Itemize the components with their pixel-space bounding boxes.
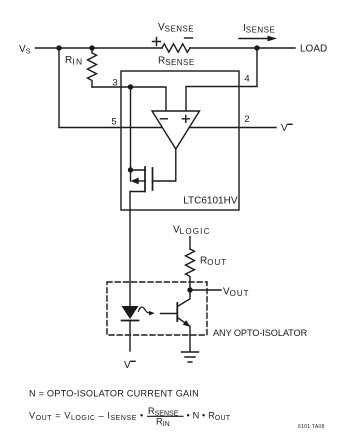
node junction dot E (MOSFET source node) (128, 167, 133, 172)
wire RIN to op-amp inverting input (pin 3) (92, 87, 166, 111)
svg-text:V: V (281, 123, 288, 134)
svg-text:V: V (124, 360, 131, 371)
svg-text:3: 3 (112, 78, 117, 89)
svg-text:4: 4 (244, 74, 249, 85)
wire LED cathode to V- (129, 321, 131, 352)
svg-text:ANY OPTO-ISOLATOR: ANY OPTO-ISOLATOR (213, 328, 308, 338)
ground symbol (182, 352, 199, 362)
label RSENSE (under resistor) (158, 56, 195, 68)
formula fraction bar (148, 415, 184, 417)
pin 4 label (244, 74, 249, 85)
svg-text:5: 5 (111, 117, 116, 128)
node junction dot D (pin 3 node) (128, 84, 133, 89)
wire pin 4 to op-amp non-inverting input (186, 48, 257, 111)
svg-text:VSENSE: VSENSE (158, 22, 194, 34)
svg-text:N = OPTO-ISOLATOR CURRENT GAIN: N = OPTO-ISOLATOR CURRENT GAIN (29, 389, 199, 399)
note N = opto-isolator current gain (29, 389, 199, 399)
wire VLOGIC down to ROUT (189, 237, 191, 250)
svg-text:VLOGIC: VLOGIC (173, 225, 211, 237)
wire op-amp output to MOSFET gate (153, 149, 176, 181)
wire top rail left (VS to RSENSE) (36, 47, 163, 49)
wire pin 2 to V- (190, 127, 277, 129)
opto-isolator dashed box (107, 282, 207, 335)
label ANY OPTO-ISOLATOR (213, 328, 308, 338)
svg-text:ROUT: ROUT (200, 256, 227, 268)
transistor Q2 base bar (176, 303, 178, 321)
label LTC6101HV (183, 196, 238, 207)
svg-text:VOUT = VLOGIC – ISENSE •: VOUT = VLOGIC – ISENSE • (29, 411, 144, 422)
transistor Q2 collector (177, 290, 190, 307)
light coupling squiggle arrow (138, 307, 150, 313)
svg-text:RSENSE: RSENSE (158, 56, 195, 68)
label ROUT (200, 256, 227, 268)
wire VOUT (190, 289, 221, 291)
pin 3 label (112, 78, 117, 89)
svg-text:6101 TA08: 6101 TA08 (298, 424, 325, 430)
pin 5 label (111, 117, 116, 128)
svg-text:VOUT: VOUT (223, 287, 250, 299)
svg-text:LOAD: LOAD (300, 44, 327, 55)
wire VS to pin 5 (V+ supply) (59, 48, 162, 128)
svg-text:LTC6101HV: LTC6101HV (183, 196, 238, 207)
MOSFET drain stub and wire down to LED (130, 192, 144, 307)
minus sign (VSENSE polarity) (185, 37, 193, 39)
svg-text:VS: VS (19, 44, 31, 56)
node junction dot B (RIN branch) (89, 45, 94, 50)
MOSFET source stub (131, 169, 146, 171)
label LOAD (300, 44, 327, 55)
label VSENSE (158, 22, 194, 34)
transistor Q1 P-MOSFET channel bar (144, 167, 146, 192)
op-amp minus input sign (160, 118, 167, 120)
op-amp plus input sign (182, 115, 189, 122)
MOSFET body arrow stub (137, 180, 145, 182)
figure code (298, 424, 325, 430)
transistor Q1 P-MOSFET gate bar (152, 168, 154, 190)
formula fraction RIN denominator (156, 417, 170, 428)
op-amp U1 triangle (152, 111, 200, 149)
transistor Q2 NPN base lead (161, 313, 177, 315)
label ISENSE (243, 23, 275, 35)
svg-text:RIN: RIN (65, 55, 84, 67)
node junction dot A (VS / pin5 branch) (56, 45, 61, 50)
node junction dot C (LOAD / pin4 branch) (254, 45, 259, 50)
label VLOGIC (173, 225, 211, 237)
formula VOUT equation left part (29, 411, 144, 422)
plus sign (VSENSE polarity) (153, 38, 161, 46)
svg-text:2: 2 (244, 114, 249, 125)
svg-text:ISENSE: ISENSE (243, 23, 275, 35)
diode D1 LED of opto-isolator (122, 306, 139, 319)
svg-text:• N • ROUT: • N • ROUT (187, 411, 231, 422)
formula right part N x ROUT (187, 411, 231, 422)
wire pin3 node down to MOSFET source/body (130, 87, 132, 181)
label RIN (65, 55, 84, 67)
label VOUT (223, 287, 250, 299)
transistor Q2 emitter with arrow (177, 318, 190, 352)
arrow ISENSE (current direction) (239, 38, 269, 40)
resistor ROUT (186, 249, 195, 290)
svg-text:RIN: RIN (156, 417, 170, 428)
formula fraction RSENSE numerator (148, 406, 179, 417)
IC box LTC6101HV (121, 71, 239, 210)
label V- (below LED) (124, 360, 131, 371)
wire top rail right (RSENSE to LOAD) (190, 47, 295, 49)
label V- (right) (281, 123, 288, 134)
resistor RSENSE (zigzag in top rail) (162, 44, 190, 52)
resistor RIN (88, 48, 97, 87)
node junction dot F (VOUT node) (187, 287, 192, 292)
pin 2 label (244, 114, 249, 125)
svg-text:RSENSE: RSENSE (148, 406, 179, 417)
node VS label (19, 44, 31, 56)
